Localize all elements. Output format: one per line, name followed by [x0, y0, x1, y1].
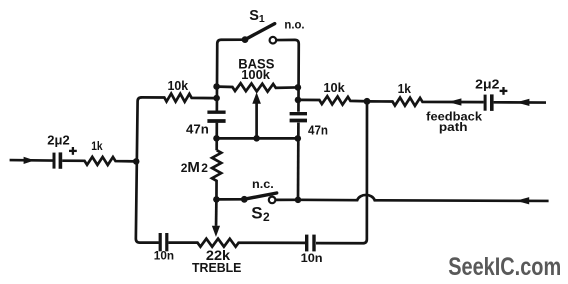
svg-text:S: S [251, 204, 262, 223]
label S2 [251, 204, 270, 224]
capacitor C6 10n right (plates) [307, 235, 314, 252]
svg-text:10k: 10k [323, 80, 345, 95]
node: output line rail C dot [295, 197, 302, 204]
feedback arrow left (outer) [516, 99, 529, 106]
resistor R4 1k feedback [369, 98, 484, 106]
switch S1 moving contact dot [242, 36, 249, 43]
wire: feedback line right of C2 [494, 101, 546, 104]
svg-text:2μ2: 2μ2 [475, 76, 499, 91]
node: 10k-left to rail B dot [213, 95, 220, 102]
capacitor C1 2u2 input (plates) [54, 152, 60, 168]
label C1 polarity + [69, 147, 77, 155]
wire: input signal line [10, 159, 53, 162]
capacitor C5 10n left (plates) [160, 233, 167, 251]
resistor R2 10k left [141, 94, 215, 102]
node: BASS left terminal dot [213, 83, 220, 90]
switch S2 moving contact dot [241, 196, 248, 203]
wire: left vertical rail [136, 97, 159, 242]
node: input junction dot [133, 158, 140, 165]
svg-text:47n: 47n [186, 122, 209, 136]
capacitor C4 47n right (plates) [290, 114, 307, 121]
switch S1 lever [245, 24, 275, 40]
label C2 polarity + [500, 87, 508, 95]
wire: S2 to rail C segment [275, 198, 296, 201]
svg-text:10n: 10n [154, 249, 174, 263]
potentiometer TREBLE wiper arrow [212, 200, 220, 237]
wire: vertical from 10k/1k junction to bottom [316, 101, 367, 243]
svg-text:100k: 100k [241, 67, 271, 82]
node: middle line left dot [213, 135, 220, 142]
wire: output line with hop [298, 195, 549, 201]
capacitor C2 2u2 feedback (plates) [485, 94, 492, 111]
svg-text:n.c.: n.c. [252, 177, 274, 191]
resistor R1 1k input [62, 157, 134, 165]
wire: rail C mid (cap to S2) [297, 123, 300, 200]
node: BASS right terminal dot [295, 84, 302, 91]
wire: middle horizontal line [217, 137, 298, 140]
svg-text:2: 2 [201, 161, 208, 175]
resistor R3 10k right [300, 96, 366, 104]
wire: rail C upper (S1 right leg) [276, 40, 299, 112]
potentiometer TREBLE 22k track [168, 239, 305, 247]
node: middle line wiper dot [253, 135, 260, 142]
label R5 value 2M2 [181, 159, 209, 176]
potentiometer BASS 100k track [218, 83, 297, 91]
svg-text:SeekIC.com: SeekIC.com [448, 253, 561, 281]
switch S1 fixed contact (open circle) [270, 37, 277, 44]
node: S2 left junction dot [213, 196, 220, 203]
node: rail C 10k junction dot [295, 97, 302, 104]
input arrow (signal into circuit) [24, 157, 35, 164]
svg-text:n.o.: n.o. [284, 19, 304, 31]
resistor R5 2M2 [212, 150, 221, 199]
svg-text:2: 2 [263, 210, 270, 224]
output arrow left [516, 197, 529, 204]
svg-text:path: path [439, 120, 468, 134]
wire: rail B upper (S1 left leg) [217, 40, 243, 111]
wire: rail B mid (cap to 2M2) [215, 123, 218, 151]
svg-text:10k: 10k [168, 78, 189, 93]
potentiometer BASS wiper arrow [252, 92, 261, 138]
svg-text:M: M [187, 159, 200, 176]
switch S2 fixed contact (open circle) [269, 197, 276, 204]
feedback arrow left (inner) [448, 98, 461, 105]
wire: S2 left segment [217, 198, 243, 201]
svg-text:1: 1 [259, 13, 265, 25]
node: middle line right dot [295, 135, 302, 142]
svg-text:1k: 1k [91, 139, 103, 153]
node: 10k/1k junction dot [364, 98, 371, 105]
svg-text:10n: 10n [301, 251, 323, 265]
capacitor C3 47n left (plates) [207, 112, 225, 121]
svg-text:1k: 1k [398, 81, 412, 96]
label S1 [249, 8, 265, 25]
svg-text:S: S [249, 8, 259, 24]
switch S2 lever [244, 193, 276, 199]
svg-text:47n: 47n [308, 122, 328, 137]
svg-text:2μ2: 2μ2 [47, 133, 69, 148]
svg-text:TREBLE: TREBLE [192, 260, 242, 275]
